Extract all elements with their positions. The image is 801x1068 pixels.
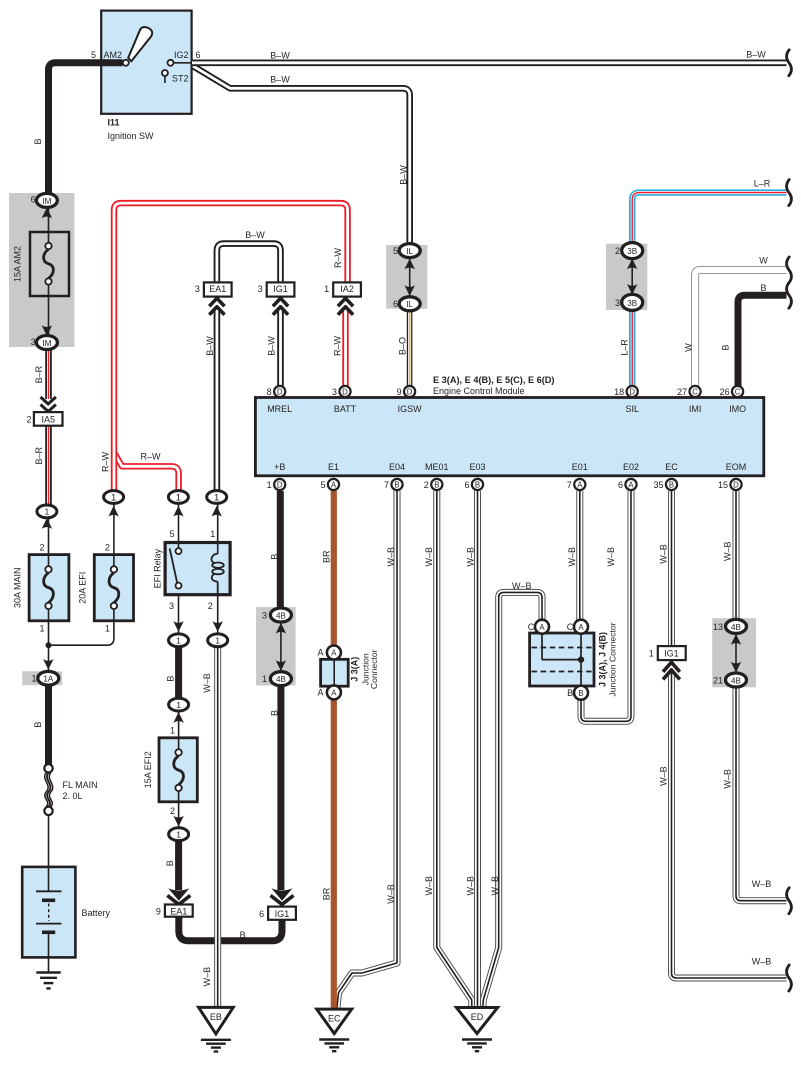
svg-text:W: W bbox=[684, 343, 694, 352]
svg-text:IG2: IG2 bbox=[174, 50, 189, 60]
svg-text:20A EFI: 20A EFI bbox=[78, 572, 88, 604]
svg-text:15A AM2: 15A AM2 bbox=[13, 246, 23, 282]
svg-text:E1: E1 bbox=[328, 462, 339, 472]
svg-text:W–B: W–B bbox=[386, 547, 396, 567]
svg-text:W–B: W–B bbox=[723, 542, 733, 562]
svg-text:3: 3 bbox=[615, 298, 620, 308]
svg-text:1: 1 bbox=[215, 636, 220, 646]
svg-text:IL: IL bbox=[406, 247, 413, 256]
svg-text:18: 18 bbox=[614, 387, 624, 397]
svg-text:B–R: B–R bbox=[34, 365, 44, 383]
svg-text:B: B bbox=[33, 722, 43, 728]
svg-text:IA5: IA5 bbox=[41, 414, 55, 424]
svg-text:R–W: R–W bbox=[333, 247, 343, 268]
svg-text:C: C bbox=[735, 388, 741, 397]
svg-text:B–W: B–W bbox=[270, 74, 290, 84]
svg-text:6: 6 bbox=[259, 909, 264, 919]
svg-text:1: 1 bbox=[262, 674, 267, 684]
svg-text:9: 9 bbox=[156, 906, 161, 916]
svg-text:W–B: W–B bbox=[723, 769, 733, 789]
svg-text:7: 7 bbox=[384, 480, 389, 490]
svg-text:15: 15 bbox=[718, 480, 728, 490]
svg-text:B–R: B–R bbox=[34, 446, 44, 464]
svg-text:W–B: W–B bbox=[606, 547, 616, 567]
svg-text:D: D bbox=[277, 388, 283, 397]
svg-text:W–B: W–B bbox=[752, 879, 772, 889]
svg-text:21: 21 bbox=[713, 675, 723, 685]
svg-text:A: A bbox=[578, 623, 584, 632]
svg-text:B–O: B–O bbox=[398, 337, 408, 355]
svg-text:2: 2 bbox=[208, 601, 213, 611]
svg-text:1: 1 bbox=[176, 830, 181, 840]
svg-text:C: C bbox=[567, 622, 574, 632]
svg-text:B–W: B–W bbox=[270, 50, 290, 60]
svg-text:MREL: MREL bbox=[267, 404, 292, 414]
svg-text:ST2: ST2 bbox=[172, 74, 189, 84]
svg-text:E02: E02 bbox=[623, 462, 639, 472]
svg-text:2: 2 bbox=[26, 414, 31, 424]
svg-text:R–W: R–W bbox=[101, 451, 111, 472]
svg-text:5: 5 bbox=[91, 50, 96, 60]
svg-text:B: B bbox=[760, 283, 766, 293]
svg-text:L–R: L–R bbox=[754, 178, 771, 188]
svg-text:IL: IL bbox=[406, 300, 413, 309]
svg-text:C: C bbox=[692, 388, 698, 397]
svg-text:SIL: SIL bbox=[625, 404, 639, 414]
svg-text:6: 6 bbox=[393, 299, 398, 309]
svg-text:ME01: ME01 bbox=[425, 462, 449, 472]
svg-text:1: 1 bbox=[324, 284, 329, 294]
svg-text:EB: EB bbox=[210, 1012, 222, 1022]
svg-text:W–B: W–B bbox=[466, 547, 476, 567]
svg-text:1: 1 bbox=[45, 507, 50, 517]
svg-text:E04: E04 bbox=[389, 462, 405, 472]
svg-text:1: 1 bbox=[39, 624, 44, 634]
svg-text:E 3(A), E 4(B), E 5(C), E 6(D): E 3(A), E 4(B), E 5(C), E 6(D) bbox=[433, 375, 555, 385]
svg-text:IG1: IG1 bbox=[273, 284, 288, 294]
svg-text:3: 3 bbox=[169, 601, 174, 611]
svg-text:W: W bbox=[759, 256, 768, 266]
svg-text:3: 3 bbox=[332, 387, 337, 397]
svg-text:4B: 4B bbox=[731, 623, 741, 632]
svg-text:A: A bbox=[331, 481, 337, 490]
svg-text:C: C bbox=[528, 622, 535, 632]
svg-text:B: B bbox=[165, 676, 175, 682]
svg-text:W–B: W–B bbox=[658, 766, 668, 786]
svg-text:2. 0L: 2. 0L bbox=[63, 791, 83, 801]
svg-text:B: B bbox=[394, 481, 399, 490]
svg-text:A: A bbox=[317, 688, 323, 698]
svg-text:B: B bbox=[669, 481, 674, 490]
svg-text:B: B bbox=[475, 481, 480, 490]
svg-text:1: 1 bbox=[214, 492, 219, 503]
svg-text:B–W: B–W bbox=[267, 336, 277, 356]
svg-text:7: 7 bbox=[567, 480, 572, 490]
svg-text:2: 2 bbox=[105, 543, 110, 553]
svg-text:A: A bbox=[317, 648, 323, 658]
svg-text:W–B: W–B bbox=[386, 884, 396, 904]
svg-text:Connector: Connector bbox=[369, 649, 379, 689]
svg-text:B–W: B–W bbox=[399, 165, 409, 185]
svg-text:E03: E03 bbox=[469, 462, 485, 472]
svg-text:B: B bbox=[578, 689, 583, 698]
svg-text:J 3(A), J 4(B): J 3(A), J 4(B) bbox=[598, 632, 608, 687]
svg-text:1: 1 bbox=[176, 636, 181, 646]
svg-text:15A EFI2: 15A EFI2 bbox=[143, 751, 153, 788]
svg-text:4B: 4B bbox=[276, 675, 286, 684]
svg-text:EOM: EOM bbox=[726, 462, 747, 472]
svg-text:1: 1 bbox=[105, 624, 110, 634]
svg-text:EA1: EA1 bbox=[209, 284, 226, 294]
svg-text:35: 35 bbox=[653, 480, 663, 490]
svg-text:W–B: W–B bbox=[752, 957, 772, 967]
svg-text:6: 6 bbox=[464, 480, 469, 490]
svg-text:B: B bbox=[269, 710, 279, 716]
svg-text:IA2: IA2 bbox=[340, 284, 354, 294]
svg-text:I11: I11 bbox=[108, 118, 120, 128]
svg-text:30A MAIN: 30A MAIN bbox=[13, 567, 23, 608]
svg-text:R–W: R–W bbox=[332, 335, 342, 356]
svg-text:B: B bbox=[434, 481, 439, 490]
svg-text:8: 8 bbox=[267, 387, 272, 397]
svg-text:EC: EC bbox=[665, 462, 678, 472]
svg-text:FL MAIN: FL MAIN bbox=[63, 780, 98, 790]
svg-text:IMI: IMI bbox=[689, 404, 702, 414]
svg-text:2: 2 bbox=[615, 246, 620, 256]
svg-text:A: A bbox=[331, 689, 337, 698]
svg-text:A: A bbox=[539, 623, 545, 632]
svg-text:9: 9 bbox=[397, 387, 402, 397]
svg-text:4B: 4B bbox=[731, 676, 741, 685]
svg-text:6: 6 bbox=[618, 480, 623, 490]
svg-text:4B: 4B bbox=[276, 611, 286, 620]
svg-text:Junction Connector: Junction Connector bbox=[608, 622, 618, 696]
svg-text:BATT: BATT bbox=[334, 404, 357, 414]
svg-text:W–B: W–B bbox=[202, 967, 212, 987]
svg-text:W–B: W–B bbox=[202, 673, 212, 693]
svg-text:IGSW: IGSW bbox=[398, 404, 423, 414]
svg-text:Ignition SW: Ignition SW bbox=[108, 131, 155, 141]
svg-text:W–B: W–B bbox=[466, 876, 476, 896]
svg-text:Battery: Battery bbox=[82, 908, 111, 918]
svg-text:1A: 1A bbox=[43, 675, 54, 684]
svg-text:EA1: EA1 bbox=[170, 906, 187, 916]
svg-text:1: 1 bbox=[267, 480, 272, 490]
svg-text:Engine Control Module: Engine Control Module bbox=[433, 386, 525, 396]
svg-text:27: 27 bbox=[677, 387, 687, 397]
svg-text:IG1: IG1 bbox=[664, 649, 679, 659]
svg-text:BR: BR bbox=[322, 887, 332, 900]
svg-text:3B: 3B bbox=[627, 247, 637, 256]
svg-text:A: A bbox=[628, 481, 634, 490]
svg-text:26: 26 bbox=[720, 387, 730, 397]
svg-text:BR: BR bbox=[322, 550, 332, 563]
svg-text:3: 3 bbox=[195, 284, 200, 294]
svg-text:B–W: B–W bbox=[205, 336, 215, 356]
svg-text:W–B: W–B bbox=[424, 547, 434, 567]
svg-text:A: A bbox=[331, 649, 337, 658]
svg-text:E01: E01 bbox=[572, 462, 588, 472]
svg-text:2: 2 bbox=[170, 806, 175, 816]
svg-text:B–W: B–W bbox=[245, 230, 265, 240]
svg-text:W–B: W–B bbox=[512, 581, 532, 591]
svg-text:B: B bbox=[165, 860, 175, 866]
svg-text:D: D bbox=[629, 388, 635, 397]
svg-text:D: D bbox=[733, 481, 739, 490]
svg-text:W–B: W–B bbox=[490, 876, 500, 896]
svg-text:W–B: W–B bbox=[567, 547, 577, 567]
svg-text:6: 6 bbox=[31, 195, 36, 205]
svg-text:IMO: IMO bbox=[729, 404, 746, 414]
svg-text:1: 1 bbox=[176, 492, 181, 503]
svg-text:5: 5 bbox=[169, 529, 174, 539]
svg-text:3B: 3B bbox=[627, 299, 637, 308]
svg-text:3: 3 bbox=[31, 337, 36, 347]
svg-text:B: B bbox=[567, 688, 573, 698]
svg-text:6: 6 bbox=[196, 50, 201, 60]
svg-text:W–B: W–B bbox=[658, 544, 668, 564]
svg-text:1: 1 bbox=[649, 649, 654, 659]
svg-text:IM: IM bbox=[42, 339, 51, 348]
svg-text:13: 13 bbox=[713, 622, 723, 632]
svg-text:B–W: B–W bbox=[746, 50, 766, 60]
svg-text:3: 3 bbox=[262, 610, 267, 620]
svg-text:ED: ED bbox=[471, 1012, 484, 1022]
svg-text:AM2: AM2 bbox=[104, 50, 123, 60]
svg-text:B: B bbox=[269, 554, 279, 560]
svg-text:B: B bbox=[33, 138, 43, 144]
svg-text:IM: IM bbox=[42, 197, 51, 206]
svg-text:W–B: W–B bbox=[424, 876, 434, 896]
svg-text:5: 5 bbox=[393, 246, 398, 256]
svg-text:IG1: IG1 bbox=[275, 909, 290, 919]
svg-text:2: 2 bbox=[424, 480, 429, 490]
svg-text:A: A bbox=[577, 481, 583, 490]
svg-text:3: 3 bbox=[258, 284, 263, 294]
svg-text:EC: EC bbox=[328, 1014, 341, 1024]
svg-text:R–W: R–W bbox=[141, 452, 162, 462]
svg-text:1: 1 bbox=[111, 492, 116, 503]
svg-text:2: 2 bbox=[39, 543, 44, 553]
svg-text:D: D bbox=[342, 388, 348, 397]
svg-text:B: B bbox=[721, 344, 731, 350]
svg-text:1: 1 bbox=[170, 725, 175, 735]
svg-text:+B: +B bbox=[274, 462, 285, 472]
svg-text:EFI Relay: EFI Relay bbox=[152, 548, 162, 588]
svg-text:1: 1 bbox=[31, 674, 36, 684]
svg-text:B: B bbox=[240, 930, 246, 940]
svg-text:5: 5 bbox=[320, 480, 325, 490]
svg-text:D: D bbox=[407, 388, 413, 397]
svg-text:L–R: L–R bbox=[620, 339, 630, 356]
svg-text:J 3(A): J 3(A) bbox=[350, 657, 360, 682]
svg-text:D: D bbox=[277, 481, 283, 490]
svg-text:1: 1 bbox=[176, 700, 181, 710]
svg-text:1: 1 bbox=[210, 529, 215, 539]
